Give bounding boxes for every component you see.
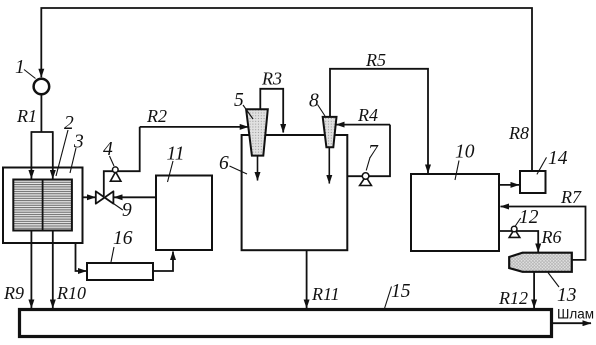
wire R2 to hydrocyclone 5 [140, 126, 249, 128]
svg-text:R6: R6 [541, 227, 562, 247]
rotameter 1 [34, 79, 50, 95]
svg-text:4: 4 [103, 139, 113, 160]
wire R12 [533, 272, 535, 308]
leader 2 [56, 130, 68, 176]
collector 15 [20, 310, 552, 337]
svg-text:15: 15 [391, 281, 411, 302]
svg-text:2: 2 [64, 113, 74, 134]
svg-text:14: 14 [548, 148, 568, 169]
wire valve to pump4 to R2 [104, 127, 140, 196]
leader 1 [24, 70, 36, 79]
pump 4 [110, 172, 121, 181]
valve 9 [96, 191, 105, 203]
svg-text:12: 12 [519, 207, 539, 228]
wire R4 into hydrocyclone 8 [336, 124, 390, 126]
svg-text:R1: R1 [16, 106, 37, 126]
leader 16 [111, 247, 114, 262]
svg-text:16: 16 [113, 228, 133, 249]
leader 5 [243, 105, 253, 119]
svg-text:R12: R12 [498, 288, 528, 308]
svg-text:3: 3 [73, 132, 84, 153]
leader 6 [230, 166, 248, 174]
duct into exchanger [31, 131, 52, 133]
pump 7 [360, 177, 372, 186]
leader 4 [110, 156, 115, 166]
leader 12 [515, 218, 520, 226]
hydrocyclone 5 underflow into tank 6 [257, 156, 259, 181]
leader 3 [70, 148, 76, 173]
tank 10 [411, 174, 499, 251]
svg-text:5: 5 [234, 90, 244, 111]
wire R3 loop [260, 89, 283, 133]
pipe vessel3 to valve 9 [83, 196, 96, 198]
apparatus 3 outer shell [3, 168, 83, 244]
svg-text:Шлам: Шлам [557, 307, 594, 322]
hydrocyclone 8 underflow into tank 6 [328, 147, 330, 183]
svg-text:8: 8 [309, 91, 319, 112]
svg-text:R4: R4 [357, 105, 378, 125]
box 16 [87, 263, 153, 280]
leader 9 [107, 199, 123, 210]
wire tank10 to pump12 and R6 drop [499, 231, 538, 252]
leader 14 [537, 157, 547, 174]
wire tank6 to pump7 riser [347, 125, 390, 177]
leader 10 [455, 161, 459, 181]
pipe box11 to valve 9 [114, 196, 156, 198]
svg-text:R8: R8 [508, 123, 529, 143]
screw press 13 [509, 253, 572, 272]
wire R10 out of exchanger [52, 231, 54, 308]
box 14 [520, 171, 546, 193]
leader 8 [318, 105, 326, 117]
svg-text:10: 10 [455, 142, 475, 163]
wire R8 top run from box14 to rotameter 1 [41, 8, 532, 171]
wire R7 from press 13 to tank 10 [501, 207, 586, 260]
svg-text:13: 13 [557, 285, 577, 306]
wire R1 vertical [40, 94, 42, 132]
svg-text:9: 9 [122, 200, 132, 221]
pump 12 [509, 229, 520, 237]
svg-text:R2: R2 [146, 106, 167, 126]
wire R9 out of exchanger [30, 231, 32, 308]
wire R11 [306, 250, 308, 308]
sludge outlet arrow [552, 322, 592, 324]
wire R5 to tank 10 [330, 69, 428, 173]
pipe box16 to box11 [153, 252, 173, 272]
hydrocyclone 5 [246, 109, 268, 155]
svg-text:11: 11 [167, 144, 185, 165]
svg-text:R10: R10 [56, 283, 86, 303]
svg-text:R9: R9 [3, 283, 24, 303]
svg-text:R3: R3 [261, 69, 282, 89]
svg-text:R11: R11 [311, 284, 340, 304]
box 11 [156, 176, 212, 251]
svg-text:7: 7 [368, 142, 379, 163]
leader 7 [366, 158, 370, 171]
svg-text:1: 1 [15, 57, 25, 78]
svg-text:R5: R5 [365, 50, 386, 70]
pipe vessel 3 to box 16 [76, 243, 87, 271]
tank 6 [242, 135, 348, 250]
heat exchanger 2 hatched core [13, 180, 72, 231]
leader 15 [385, 287, 392, 309]
svg-text:6: 6 [219, 153, 229, 174]
pipe tank10 to box14 [499, 184, 519, 186]
leader 11 [168, 161, 174, 182]
svg-text:R7: R7 [560, 187, 582, 207]
hydrocyclone 8 [323, 117, 337, 147]
leader 13 [548, 273, 559, 288]
